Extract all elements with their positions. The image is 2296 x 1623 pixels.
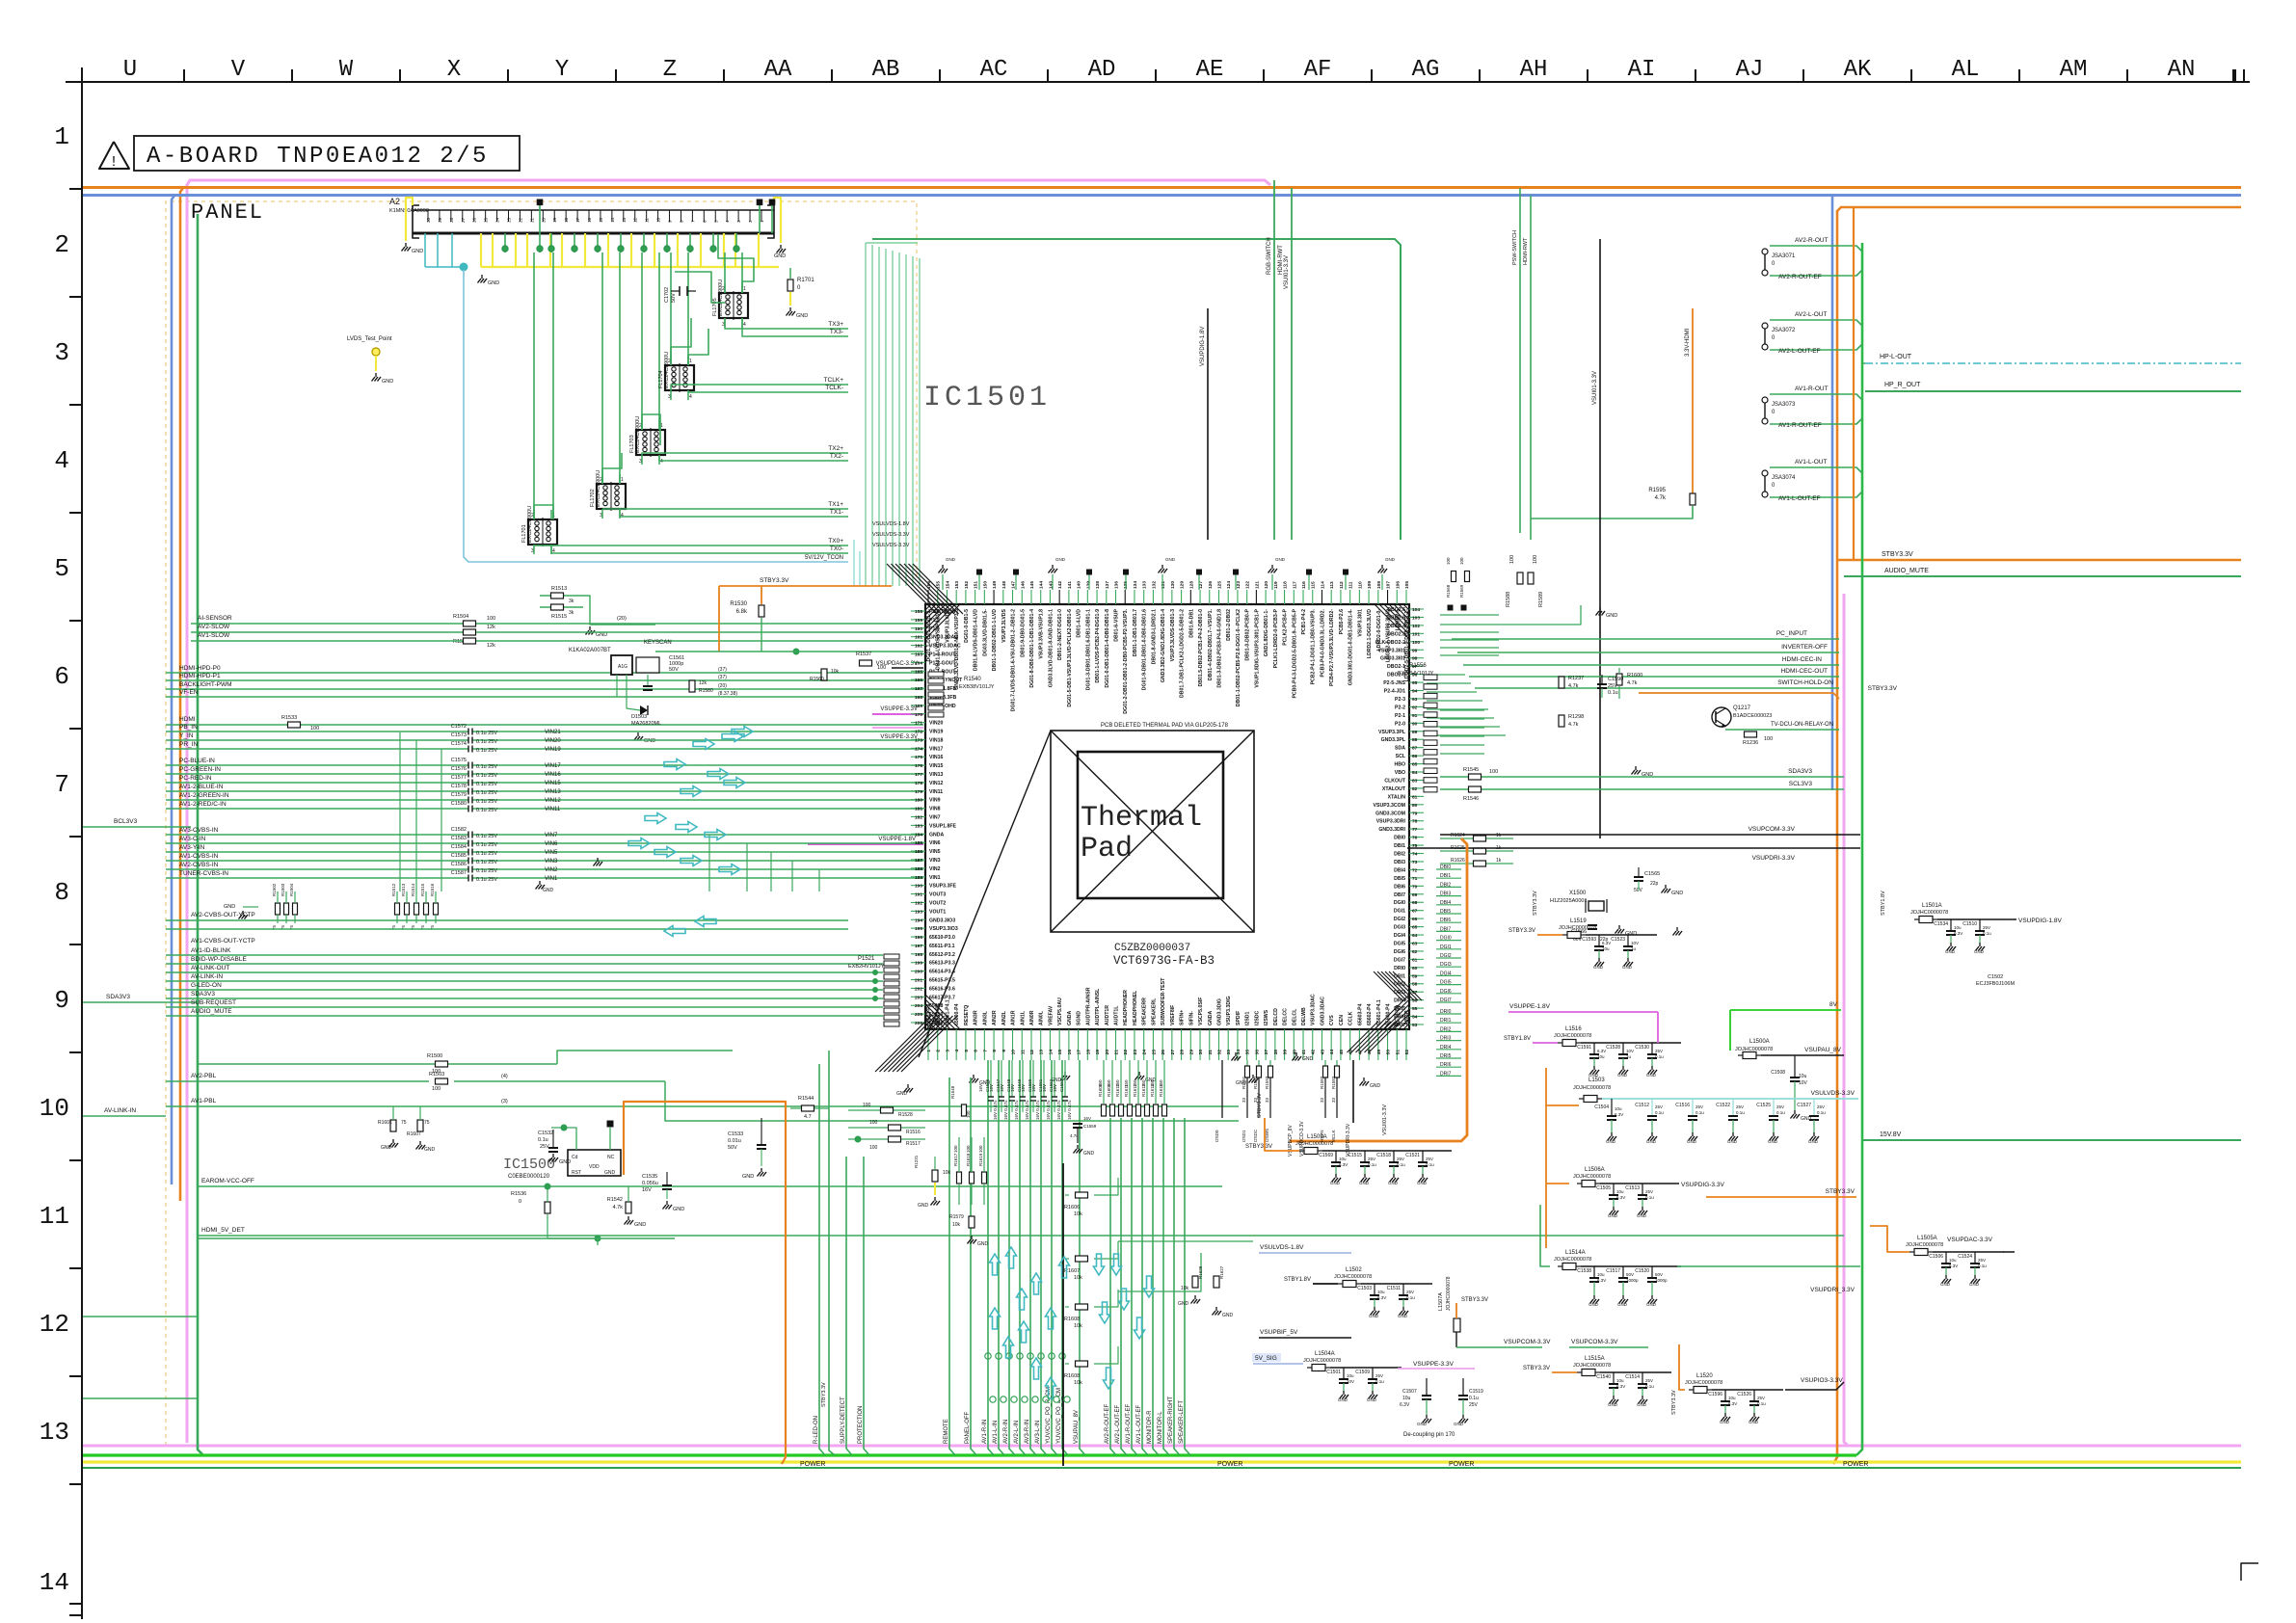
ruler right end double tick — [2232, 69, 2234, 82]
resistor R1601 75 — [390, 1120, 396, 1131]
svg-text:134: 134 — [1133, 581, 1138, 589]
svg-text:27: 27 — [1170, 1050, 1176, 1055]
svg-text:AV3-Y-IN: AV3-Y-IN — [179, 844, 205, 851]
svg-text:GND: GND — [1417, 1181, 1428, 1185]
svg-text:100: 100 — [310, 726, 319, 732]
svg-text:GND: GND — [1589, 1302, 1599, 1307]
svg-text:33: 33 — [1241, 1097, 1246, 1103]
svg-text:AV1-CVBS-OUT-YCTP: AV1-CVBS-OUT-YCTP — [191, 938, 255, 945]
svg-text:VSUP3.3DAC: VSUP3.3DAC — [1311, 994, 1317, 1025]
svg-text:AH: AH — [1520, 57, 1548, 83]
svg-text:C1586: C1586 — [451, 862, 467, 867]
svg-text:GND: GND — [946, 557, 956, 562]
wire green TX0 pair — [534, 545, 848, 545]
svg-text:AIN3R: AIN3R — [974, 1010, 979, 1025]
svg-text:JSA3073: JSA3073 — [1772, 402, 1796, 408]
svg-text:186: 186 — [915, 849, 922, 855]
svg-text:C1575: C1575 — [451, 758, 467, 763]
capacitor C1586 0.1u 25V — [467, 866, 469, 873]
svg-text:75: 75 — [401, 1120, 407, 1126]
wire green row Y_IN — [166, 739, 468, 741]
svg-text:0.1u 25V: 0.1u 25V — [476, 748, 497, 754]
svg-text:DB01-4-DB02-DB01.7--VSUP1.: DB01-4-DB02-DB01.7--VSUP1. — [1208, 608, 1214, 680]
svg-text:7: 7 — [690, 220, 695, 223]
resistor R1517 100 — [848, 1138, 925, 1140]
IC1501 bottom pins — [927, 1029, 929, 1060]
svg-text:I2SD1: I2SD1 — [1241, 1130, 1246, 1142]
svg-text:C1578: C1578 — [451, 784, 467, 789]
svg-text:VIN18: VIN18 — [929, 737, 944, 743]
wire green 15V.8V rail right — [1862, 1139, 2241, 1141]
svg-text:C1587: C1587 — [451, 870, 467, 876]
svg-text:VIN6: VIN6 — [545, 841, 558, 847]
svg-text:PANEL-OFF: PANEL-OFF — [965, 1411, 971, 1444]
svg-text:GND: GND — [796, 313, 808, 319]
transformer FL1703 EXC24CE900U — [636, 430, 665, 455]
svg-text:DGI1: DGI1 — [1394, 909, 1405, 915]
svg-text:152: 152 — [964, 581, 970, 589]
svg-text:VREF8IF: VREF8IF — [1170, 1005, 1176, 1025]
svg-text:192: 192 — [915, 900, 922, 906]
capacitor C1505 10u 6.3V — [1613, 1184, 1615, 1195]
svg-text:0.1u 25V: 0.1u 25V — [476, 868, 497, 874]
wire black VSUPDRI vertical right — [1352, 1060, 1354, 1123]
svg-text:SDA3V3: SDA3V3 — [191, 991, 215, 998]
svg-text:1k: 1k — [1496, 858, 1502, 864]
svg-text:139: 139 — [1085, 581, 1091, 589]
svg-text:VSUPAU_8V: VSUPAU_8V — [1074, 1410, 1080, 1444]
svg-text:VSUP3.3COM: VSUP3.3COM — [1374, 803, 1405, 809]
svg-text:X1500: X1500 — [1569, 891, 1587, 896]
svg-text:25V: 25V — [1645, 1378, 1653, 1383]
svg-text:TX2+: TX2+ — [828, 445, 843, 452]
svg-text:100: 100 — [1459, 557, 1464, 565]
svg-text:120: 120 — [1264, 581, 1269, 589]
svg-text:PANEL: PANEL — [191, 200, 264, 225]
svg-text:C1593: C1593 — [1582, 937, 1596, 943]
svg-text:R1601: R1601 — [378, 1120, 392, 1126]
svg-text:CLK-DBO2-2: CLK-DBO2-2 — [1375, 640, 1406, 646]
svg-text:P2-0: P2-0 — [1395, 721, 1405, 727]
transistor Q1217 B1ADCE000023 — [1712, 707, 1731, 727]
svg-text:GND: GND — [1617, 1302, 1628, 1307]
svg-text:L1507A: L1507A — [1438, 1292, 1444, 1311]
svg-text:AV1-R-IN: AV1-R-IN — [982, 1420, 988, 1444]
capacitor C1522 25V 0.1u — [1732, 1099, 1734, 1116]
svg-text:145: 145 — [1029, 581, 1035, 589]
wire green row HDMI-HPD-P1 — [166, 679, 923, 681]
svg-text:VSUPPE-3.3V: VSUPPE-3.3V — [880, 706, 918, 712]
svg-text:VIN8: VIN8 — [929, 807, 941, 812]
svg-text:VSUP3.3DIG: VSUP3.3DIG — [1226, 996, 1232, 1025]
svg-text:71: 71 — [1412, 876, 1418, 882]
svg-text:R1504: R1504 — [453, 614, 468, 620]
wire cyan VSULVDS-3.3V bus — [1602, 1098, 1858, 1100]
svg-text:C1502: C1502 — [1988, 974, 2003, 980]
svg-text:DBI0: DBI0 — [1394, 836, 1405, 841]
svg-text:GND: GND — [1275, 557, 1286, 562]
cyan arrows up bundle — [990, 1254, 1001, 1275]
svg-text:163: 163 — [915, 652, 922, 657]
svg-text:CVS: CVS — [1329, 1015, 1335, 1025]
svg-text:86: 86 — [1412, 754, 1418, 759]
svg-text:95: 95 — [1412, 680, 1418, 686]
svg-text:110: 110 — [1357, 581, 1363, 589]
wire pink power rail bottom — [83, 1445, 2241, 1448]
svg-text:150: 150 — [1107, 1079, 1111, 1087]
capacitor C1521 25V 0.1u — [1422, 1151, 1424, 1162]
svg-text:C1538: C1538 — [1577, 1268, 1591, 1274]
svg-text:GND: GND — [224, 904, 235, 910]
svg-text:202: 202 — [915, 986, 922, 992]
svg-text:GND: GND — [1974, 949, 1985, 954]
svg-text:49: 49 — [1376, 1050, 1382, 1055]
svg-text:50V: 50V — [671, 293, 677, 303]
svg-text:L1504A: L1504A — [1315, 1351, 1335, 1357]
wire orange STBY3.3V rail right — [1837, 559, 2241, 562]
svg-text:GND: GND — [1359, 1181, 1370, 1185]
svg-text:10u: 10u — [1347, 1373, 1354, 1378]
resistor R1237 4.7k — [1559, 677, 1564, 688]
resistor row R1608-R1616 — [1103, 1060, 1105, 1104]
svg-text:18: 18 — [564, 217, 569, 223]
wire orange STBY3.3V into L1520 — [1679, 1344, 1685, 1390]
svg-text:DELCC: DELCC — [1283, 1008, 1289, 1025]
IC1501 top outside stubs — [942, 574, 944, 590]
svg-text:66: 66 — [1412, 917, 1418, 922]
wire green P2 rows — [1440, 709, 1484, 711]
svg-text:STBY3.3V: STBY3.3V — [1868, 685, 1898, 692]
svg-text:11: 11 — [40, 1202, 69, 1231]
svg-text:L1502: L1502 — [1346, 1267, 1362, 1273]
wire STBY3.3V into L1515A — [1552, 1371, 1577, 1373]
svg-text:GND: GND — [1330, 1181, 1341, 1185]
svg-text:25V: 25V — [540, 1144, 549, 1150]
svg-text:PB_IN: PB_IN — [179, 724, 198, 731]
svg-text:BACKLIGHT-PWM: BACKLIGHT-PWM — [179, 681, 232, 688]
svg-text:C1576: C1576 — [451, 766, 467, 772]
wire VSUPAU_8V — [1761, 1054, 1844, 1056]
svg-text:AD: AD — [1088, 57, 1116, 83]
svg-text:ECJ3FB0J106M: ECJ3FB0J106M — [1976, 981, 2015, 987]
resistor R1607 75 — [417, 1120, 423, 1131]
wire orange rail right upper — [1837, 207, 2241, 211]
svg-text:VREFAV: VREFAV — [1048, 1005, 1054, 1025]
svg-text:GND: GND — [1083, 1151, 1095, 1157]
svg-text:6: 6 — [702, 220, 707, 223]
svg-text:GND: GND — [1608, 1213, 1618, 1218]
svg-text:SPEAKER-RIGHT: SPEAKER-RIGHT — [1168, 1397, 1174, 1444]
svg-text:16: 16 — [587, 217, 592, 223]
svg-text:150: 150 — [1150, 1079, 1155, 1087]
svg-text:VIN2: VIN2 — [929, 866, 941, 872]
svg-text:GND: GND — [742, 1174, 754, 1180]
svg-text:195: 195 — [915, 926, 922, 932]
svg-text:VIN5: VIN5 — [929, 849, 941, 855]
svg-text:15V.8V: 15V.8V — [1880, 1131, 1902, 1138]
svg-text:SCL: SCL — [1396, 754, 1406, 759]
svg-text:INVERTER-OFF: INVERTER-OFF — [1781, 644, 1828, 651]
svg-text:AF: AF — [1304, 57, 1332, 83]
svg-text:10k: 10k — [1074, 1323, 1082, 1329]
wire green R1500 row — [198, 1063, 557, 1065]
wire TV-DCU-ON-RELAY-ON — [1725, 729, 1839, 731]
svg-text:VSULVDS-3.3V: VSULVDS-3.3V — [1811, 1090, 1855, 1097]
svg-text:I2SD1: I2SD1 — [1245, 1011, 1251, 1025]
svg-text:16V: 16V — [1010, 1084, 1015, 1092]
svg-text:PC-RED-IN: PC-RED-IN — [179, 775, 212, 782]
wire green comb to transformer FL1701 — [533, 253, 535, 519]
svg-text:9: 9 — [54, 986, 69, 1015]
capacitor C1540 10u 6.3V — [1613, 1372, 1615, 1384]
svg-text:196: 196 — [915, 935, 922, 941]
svg-text:GND: GND — [1727, 1139, 1738, 1144]
svg-text:SDA: SDA — [1395, 746, 1405, 752]
svg-text:VSUP1.8FE: VSUP1.8FE — [929, 823, 957, 829]
svg-text:HEADPHONER: HEADPHONER — [1123, 990, 1129, 1025]
svg-text:HEADPHONEL: HEADPHONEL — [1133, 990, 1138, 1025]
svg-text:PCB2-P4-1-DG01.1-DB0-VSUP3.: PCB2-P4-1-DG01.1-DB0-VSUP3. — [1311, 608, 1317, 684]
svg-text:VIN19: VIN19 — [929, 730, 944, 735]
capacitor C1524 25V 0.1u — [1974, 1252, 1976, 1264]
capacitor C1579 0.1u 25V — [467, 797, 469, 804]
svg-text:PCB DELETED THERMAL PAD VIA GL: PCB DELETED THERMAL PAD VIA GLP205-178 — [1101, 723, 1229, 729]
svg-text:C1532: C1532 — [538, 1131, 553, 1136]
wire green row AV3-Y-IN — [166, 851, 468, 853]
svg-text:AI: AI — [1628, 57, 1656, 83]
svg-text:65603-P4: 65603-P4 — [1357, 1003, 1363, 1025]
svg-text:12: 12 — [40, 1310, 69, 1339]
svg-text:AV1-R-OUT-EF: AV1-R-OUT-EF — [1778, 422, 1822, 429]
wire AV1-L-OUT pair — [1770, 467, 1862, 473]
resistor R1548 100 — [962, 1104, 967, 1116]
svg-text:AV2-CVBS-OUT-YCTP: AV2-CVBS-OUT-YCTP — [191, 912, 255, 918]
wire green row PB_IN — [166, 731, 468, 732]
svg-text:DGI0: DGI0 — [1394, 900, 1405, 906]
svg-text:0.1u: 0.1u — [1397, 1162, 1405, 1167]
svg-text:189: 189 — [915, 875, 922, 881]
svg-text:DBO2-1: DBO2-1 — [1387, 664, 1405, 670]
svg-text:HDMI-CEC-IN: HDMI-CEC-IN — [1782, 656, 1822, 663]
svg-text:JOJHC0000078: JOJHC0000078 — [1573, 1085, 1611, 1091]
svg-text:VIN3: VIN3 — [929, 858, 941, 864]
svg-text:144: 144 — [1039, 581, 1045, 589]
svg-text:PCLK2-PCB4-P: PCLK2-PCB4-P — [1283, 608, 1289, 645]
PANEL dashed boundary — [166, 201, 917, 1446]
capacitor C1504 25V 0.1u — [1611, 1099, 1613, 1116]
svg-text:AV1-2-RED/C-IN: AV1-2-RED/C-IN — [179, 801, 227, 808]
svg-text:A-BOARD TNP0EA012 2/5: A-BOARD TNP0EA012 2/5 — [147, 144, 489, 170]
svg-text:R1545: R1545 — [1463, 767, 1479, 773]
svg-text:172: 172 — [915, 730, 922, 735]
wire SDA3V3 left stub — [83, 1001, 198, 1003]
ground crystal — [1665, 885, 1667, 889]
svg-text:GND: GND — [1302, 1056, 1314, 1062]
svg-text:AV2-CVBS-IN: AV2-CVBS-IN — [179, 862, 219, 868]
svg-text:69: 69 — [1412, 892, 1418, 898]
resistor R1600 4.7k — [1616, 674, 1622, 685]
svg-text:17: 17 — [575, 217, 580, 223]
svg-text:92: 92 — [1412, 705, 1418, 710]
svg-text:R1556: R1556 — [1409, 663, 1427, 669]
wire green row AV-LINK-OUT — [166, 971, 883, 973]
svg-text:VSUPDRI_3.3V: VSUPDRI_3.3V — [1810, 1287, 1855, 1293]
svg-text:(20): (20) — [617, 616, 627, 622]
svg-text:C1514: C1514 — [1625, 1374, 1640, 1380]
svg-text:VIN2: VIN2 — [545, 867, 558, 873]
svg-text:0.1u: 0.1u — [538, 1137, 548, 1143]
wire green rows AV CVBS OUT — [166, 919, 848, 921]
svg-text:C1526: C1526 — [1737, 1392, 1751, 1397]
svg-text:GND3.3DIG: GND3.3DIG — [1216, 998, 1222, 1025]
svg-text:C1523: C1523 — [1611, 937, 1625, 943]
svg-text:175: 175 — [915, 755, 922, 760]
svg-text:POWER: POWER — [1449, 1461, 1474, 1468]
svg-text:199: 199 — [915, 961, 922, 967]
svg-text:25V: 25V — [1695, 1104, 1703, 1109]
svg-text:3k: 3k — [569, 599, 574, 604]
svg-text:STBY3.3V: STBY3.3V — [1461, 1297, 1488, 1303]
svg-text:6.3V: 6.3V — [1597, 1278, 1606, 1283]
capacitor C1528 10V 1u — [1622, 1043, 1624, 1054]
svg-text:55: 55 — [1412, 1006, 1418, 1012]
svg-text:JSA3071: JSA3071 — [1772, 253, 1796, 259]
svg-text:JOJHC0000078: JOJHC0000078 — [1910, 910, 1948, 916]
terminal squares right top — [1448, 605, 1453, 610]
svg-text:0.01u: 0.01u — [728, 1138, 741, 1144]
svg-text:C1510: C1510 — [1962, 921, 1977, 927]
svg-text:(37): (37) — [718, 667, 727, 673]
svg-text:50V: 50V — [1655, 1272, 1663, 1277]
svg-text:80: 80 — [1412, 803, 1418, 809]
ground video rows — [539, 881, 541, 885]
svg-text:RST: RST — [572, 1170, 581, 1176]
wire STBY1.8V into L1516 — [1533, 1042, 1558, 1044]
svg-text:DG01-0-DB1-DB01-4-DB0-DB01-8: DG01-0-DB1-DB01-4-DB0-DB01-8 — [1105, 609, 1110, 688]
IC1501 top-left entry bundle diagonals — [887, 564, 937, 614]
svg-text:DRI7: DRI7 — [1440, 1071, 1452, 1077]
svg-text:36: 36 — [1254, 1050, 1260, 1055]
svg-text:DB01-0-DB02-PCB0-P: DB01-0-DB02-PCB0-P — [1245, 608, 1251, 660]
svg-text:33: 33 — [1265, 1097, 1269, 1103]
svg-text:GND: GND — [596, 632, 607, 638]
resistor R1545 100 — [1469, 774, 1482, 780]
svg-text:117: 117 — [1292, 581, 1297, 589]
svg-text:R1568: R1568 — [1446, 584, 1451, 598]
svg-text:17: 17 — [1077, 1050, 1082, 1055]
svg-text:0.1u: 0.1u — [1817, 1110, 1826, 1115]
svg-text:SUBWOOFER-TEST: SUBWOOFER-TEST — [1161, 977, 1166, 1025]
svg-text:65602-P4: 65602-P4 — [1367, 1003, 1373, 1025]
capacitor C1508 10u 10V — [1794, 1055, 1796, 1078]
svg-text:DGI6: DGI6 — [1394, 949, 1405, 955]
svg-text:P2-2: P2-2 — [1395, 705, 1405, 710]
svg-text:16V 0.47u: 16V 0.47u — [1035, 1100, 1040, 1120]
svg-text:DGI2: DGI2 — [1394, 917, 1405, 922]
wire VSUPDIG-3.3V out of L1506A — [1671, 1183, 1679, 1184]
svg-text:4: 4 — [54, 446, 69, 475]
svg-text:VSUP3.3DRI: VSUP3.3DRI — [1376, 819, 1406, 825]
svg-text:10k: 10k — [1074, 1211, 1082, 1217]
svg-text:180: 180 — [915, 798, 922, 804]
wire green row BDID-WP-DISABLE — [166, 963, 883, 965]
svg-text:0.1u: 0.1u — [1655, 1054, 1664, 1059]
wire black audio vertical — [1062, 1163, 1064, 1466]
svg-text:126: 126 — [1208, 581, 1214, 589]
svg-text:DGI3: DGI3 — [1440, 962, 1452, 968]
svg-text:JOJHC0000078: JOJHC0000078 — [1573, 1363, 1611, 1369]
svg-text:VSUPAU_8V: VSUPAU_8V — [1804, 1047, 1841, 1053]
svg-text:C1511: C1511 — [1387, 1286, 1402, 1291]
wire HDMI-CEC-IN — [1463, 664, 1839, 666]
svg-text:DBI5: DBI5 — [1440, 909, 1451, 915]
svg-text:GND: GND — [1646, 1302, 1657, 1307]
svg-text:VIN16: VIN16 — [545, 772, 561, 778]
svg-text:VSCP5.0SIF: VSCP5.0SIF — [1198, 998, 1204, 1025]
svg-text:2: 2 — [748, 220, 753, 223]
svg-text:150: 150 — [1115, 1079, 1120, 1087]
svg-text:153: 153 — [954, 581, 960, 589]
svg-text:R1515: R1515 — [551, 614, 567, 620]
svg-text:0.1u: 0.1u — [1983, 931, 1991, 936]
svg-text:4.7k: 4.7k — [613, 1205, 624, 1211]
svg-text:4.7: 4.7 — [804, 1114, 812, 1120]
svg-text:R1582: R1582 — [1320, 1076, 1324, 1089]
svg-text:150: 150 — [1133, 1079, 1137, 1087]
svg-text:VIN15: VIN15 — [545, 781, 561, 786]
svg-text:173: 173 — [915, 737, 922, 743]
svg-text:12: 12 — [633, 217, 638, 223]
svg-text:STBY3.3V: STBY3.3V — [760, 577, 789, 584]
wire black verticals below IC audio area — [1221, 1060, 1223, 1118]
resistor R1628 10k right of arrows — [1192, 1276, 1198, 1288]
svg-text:0.1u: 0.1u — [1645, 1195, 1654, 1200]
svg-text:100: 100 — [869, 1145, 878, 1151]
svg-text:L1505A: L1505A — [1917, 1236, 1937, 1241]
svg-text:L1506A: L1506A — [1585, 1167, 1605, 1173]
svg-text:TX1+: TX1+ — [828, 501, 843, 508]
svg-text:82: 82 — [1412, 786, 1418, 792]
capacitor C1559 4.7u 16V — [1073, 1123, 1082, 1125]
svg-text:I2SD0: I2SD0 — [1215, 1130, 1219, 1142]
svg-text:23: 23 — [1133, 1050, 1138, 1055]
svg-text:PC_INPUT: PC_INPUT — [1776, 630, 1807, 637]
wire green TX2 pair — [642, 453, 848, 455]
capacitor C1577 0.1u 25V — [467, 780, 469, 786]
svg-text:I2SDC: I2SDC — [1254, 1010, 1260, 1025]
svg-text:GND: GND — [1370, 1083, 1381, 1089]
capacitor C1517 50V 1000p — [1622, 1266, 1624, 1278]
svg-text:29: 29 — [438, 217, 442, 223]
svg-text:GND: GND — [1606, 1139, 1616, 1144]
svg-text:0.1u: 0.1u — [1757, 1401, 1766, 1406]
svg-text:133: 133 — [1142, 581, 1148, 589]
wire output bus of L1501A — [1937, 918, 2009, 920]
svg-text:C1518: C1518 — [1376, 1153, 1391, 1158]
wire green row AV1-SLOW — [191, 640, 923, 642]
wire green audio bus vertical right — [1856, 243, 1862, 1455]
svg-text:DGI1: DGI1 — [1440, 945, 1452, 950]
svg-text:65613-P3.3: 65613-P3.3 — [929, 961, 955, 967]
capacitor C1515 25V 0.1u — [1364, 1151, 1366, 1162]
svg-text:98: 98 — [1412, 656, 1418, 662]
wire green pin stubs right top — [1440, 614, 1499, 616]
svg-text:65610-P3.0: 65610-P3.0 — [929, 935, 955, 941]
svg-text:VSUPPE-1.8V: VSUPPE-1.8V — [1509, 1003, 1551, 1010]
svg-text:68: 68 — [1412, 900, 1418, 906]
svg-text:DGI7: DGI7 — [1440, 998, 1452, 1003]
svg-text:VIN9: VIN9 — [929, 798, 941, 804]
